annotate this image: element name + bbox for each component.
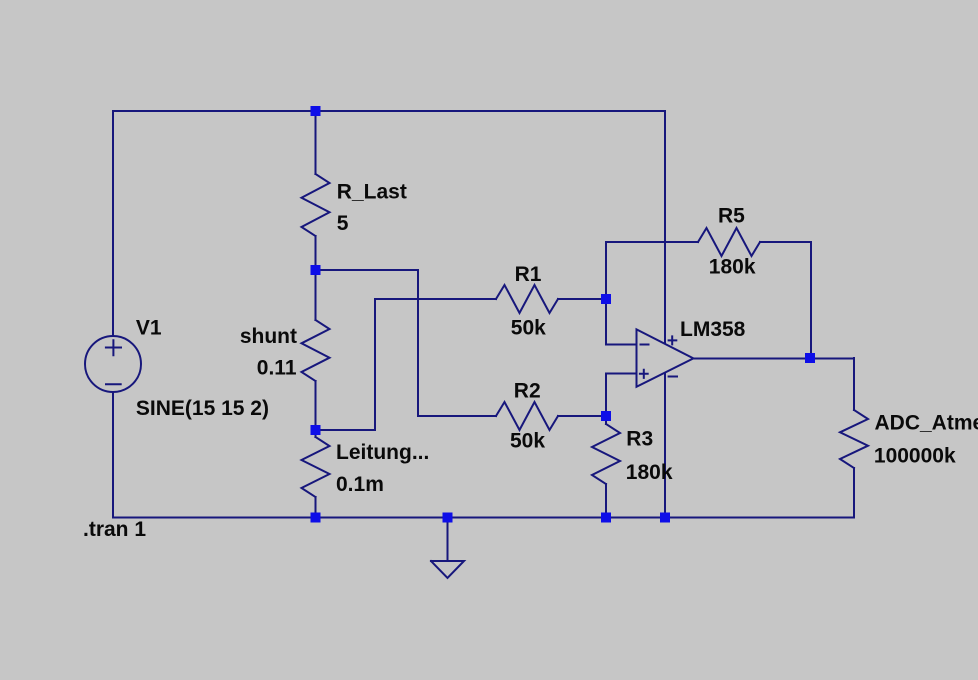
wire op-amp output xyxy=(693,358,854,360)
label shunt value 0.11 xyxy=(257,357,297,380)
svg-text:V1: V1 xyxy=(136,317,162,340)
resistor R_Last xyxy=(302,111,330,270)
label V1 value SINE(15 15 2) xyxy=(136,397,269,420)
svg-text:R3: R3 xyxy=(626,427,653,450)
resistor R2 xyxy=(496,402,606,430)
svg-text:5: 5 xyxy=(337,212,349,235)
wire non-inverting input from node to op-amp xyxy=(606,374,636,417)
resistor R3 xyxy=(592,416,620,518)
svg-text:R2: R2 xyxy=(514,380,541,403)
wire V- supply pin to bottom rail xyxy=(664,374,666,518)
svg-text:0.11: 0.11 xyxy=(257,357,297,380)
wire node shunt-bottom to vertical x375 xyxy=(316,429,376,431)
wire node shunt-top to vertical x418 xyxy=(316,269,419,271)
resistor ADC_Atmega xyxy=(840,358,868,518)
wire left rail (V1 top lead) xyxy=(112,111,114,336)
label U1 LM358 xyxy=(680,318,746,341)
resistor R5 feedback xyxy=(606,228,811,358)
junction node V- pin / bottom rail xyxy=(660,513,670,523)
label R2 value 50k xyxy=(510,430,545,453)
label V1 xyxy=(136,317,162,340)
junction node shunt / Leitung xyxy=(311,425,321,435)
label R5 xyxy=(718,204,745,227)
svg-text:shunt: shunt xyxy=(240,325,297,348)
svg-text:R5: R5 xyxy=(718,204,745,227)
junction node Leitung / bottom rail xyxy=(311,513,321,523)
label R_Last value 5 xyxy=(337,212,349,235)
svg-text:0.1m: 0.1m xyxy=(336,473,384,496)
label shunt xyxy=(240,325,297,348)
ground xyxy=(431,518,464,579)
junction node R_Last / shunt xyxy=(311,265,321,275)
svg-text:R1: R1 xyxy=(515,263,542,286)
svg-text:ADC_Atmega: ADC_Atmega xyxy=(875,411,978,434)
label R3 xyxy=(626,427,653,450)
resistor shunt xyxy=(302,270,330,430)
junction node top rail / R_Last xyxy=(311,106,321,116)
wire V1 bottom lead xyxy=(112,392,114,518)
svg-text:LM358: LM358 xyxy=(680,318,746,341)
svg-text:.tran 1: .tran 1 xyxy=(83,518,146,541)
svg-text:SINE(15 15 2): SINE(15 15 2) xyxy=(136,397,269,420)
resistor Leitung xyxy=(302,430,330,518)
wire vertical x375 up to R1 row xyxy=(374,299,376,430)
junction node R2 / R3 / non-inverting input xyxy=(601,411,611,421)
resistor R1 xyxy=(496,285,606,313)
svg-text:R_Last: R_Last xyxy=(337,180,407,203)
junction node ground / bottom rail xyxy=(443,513,453,523)
label ADC_Atmega xyxy=(875,411,978,434)
op-amp U1 LM358 triangle xyxy=(637,329,694,386)
label R3 value 180k xyxy=(626,461,673,484)
wire top rail xyxy=(113,110,665,112)
junction node R3 / bottom rail xyxy=(601,513,611,523)
label R2 xyxy=(514,380,541,403)
wire inverting input from node to op-amp xyxy=(606,299,636,345)
svg-text:180k: 180k xyxy=(709,256,756,279)
svg-text:Leitung...: Leitung... xyxy=(336,441,429,464)
label spice directive .tran 1 xyxy=(83,518,146,541)
label ADC value 100000k xyxy=(874,445,956,468)
junction node output / R5 xyxy=(805,353,815,363)
label R1 xyxy=(515,263,542,286)
svg-text:50k: 50k xyxy=(510,430,545,453)
wire bottom rail xyxy=(113,517,854,519)
svg-text:50k: 50k xyxy=(511,316,546,339)
svg-text:100000k: 100000k xyxy=(874,445,956,468)
label Leitung value 0.1m xyxy=(336,473,384,496)
svg-text:180k: 180k xyxy=(626,461,673,484)
label R1 value 50k xyxy=(511,316,546,339)
wire to R2 left terminal xyxy=(418,415,496,417)
label R5 value 180k xyxy=(709,256,756,279)
wire vertical x418 down to R2 row xyxy=(417,270,419,416)
junction node R1 / R5 / inverting input xyxy=(601,294,611,304)
label R_Last xyxy=(337,180,407,203)
voltage source V1 xyxy=(85,336,141,392)
wire to R1 left terminal xyxy=(375,298,496,300)
label Leitung xyxy=(336,441,429,464)
wire V+ supply pin from top rail xyxy=(664,111,666,343)
